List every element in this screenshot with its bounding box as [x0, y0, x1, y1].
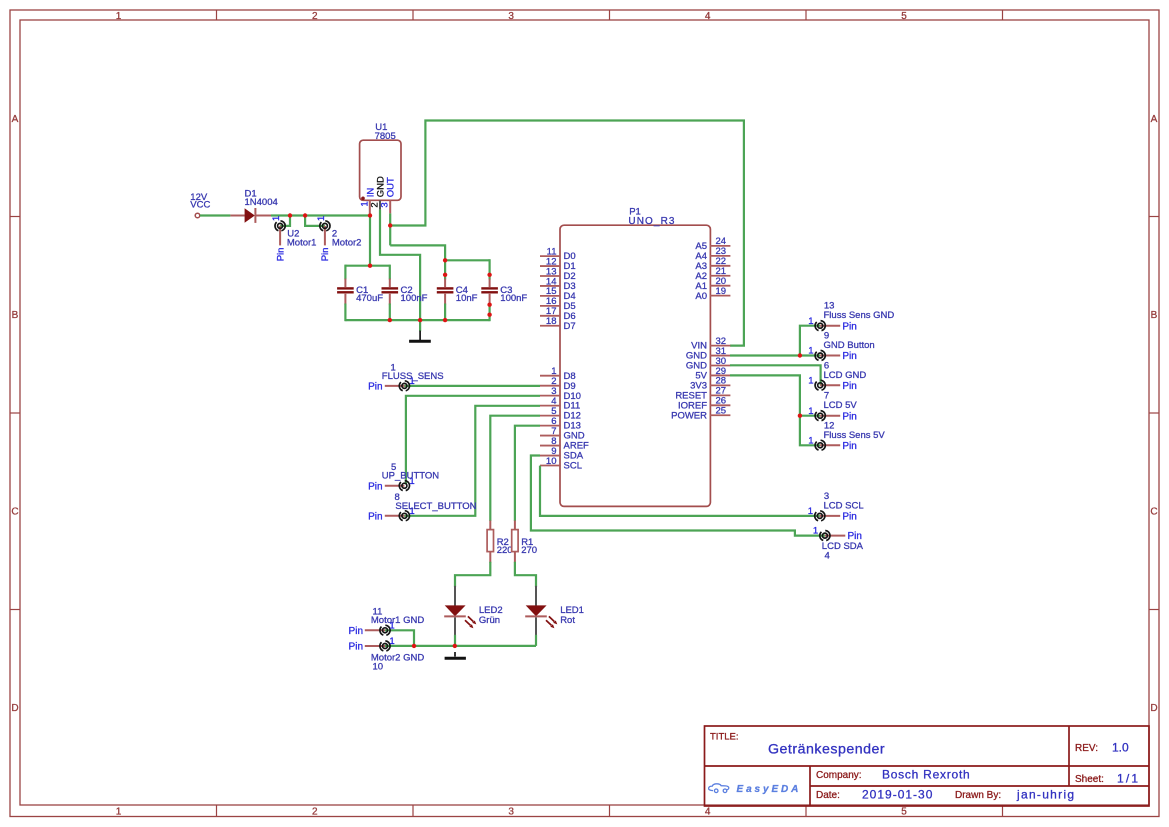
capacitor C3 100nF	[481, 279, 527, 305]
svg-text:3: 3	[508, 11, 514, 22]
pin connector SELECT_BUTTON	[385, 511, 410, 521]
pin connector U2 Motor1	[275, 221, 285, 246]
label number 3 of LCD SCL	[824, 491, 829, 502]
svg-text:470uF: 470uF	[356, 293, 383, 304]
svg-text:1: 1	[389, 636, 394, 647]
svg-text:1.0: 1.0	[1112, 741, 1129, 755]
svg-text:5: 5	[901, 11, 907, 22]
svg-text:1N4004: 1N4004	[245, 197, 278, 208]
wire GND30 to LCD GND	[730, 365, 821, 385]
svg-text:1: 1	[808, 346, 813, 357]
label number 9 of GND Button	[824, 331, 829, 342]
wire to Motor2 pin	[305, 216, 325, 226]
wire rail C1-C2	[345, 265, 389, 267]
svg-text:1: 1	[808, 375, 813, 386]
svg-text:Company:: Company:	[816, 770, 862, 781]
ground under LED2	[445, 652, 466, 658]
svg-text:POWER: POWER	[671, 410, 707, 421]
label Fluss Sens GND	[824, 310, 895, 321]
svg-text:1: 1	[116, 807, 122, 818]
svg-text:Pin: Pin	[842, 321, 856, 332]
svg-text:5: 5	[901, 807, 907, 818]
label 1N4004	[245, 197, 278, 208]
pin number 1 of LCD SDA	[813, 526, 818, 537]
capacitor C1 470uF	[337, 279, 383, 305]
P1 pins A5-A0	[695, 236, 730, 302]
pin number 1 of Motor2	[316, 216, 327, 221]
junction C3 lead b	[487, 313, 491, 317]
pin connector LCD GND	[815, 380, 840, 390]
label Motor2 GND	[371, 652, 424, 663]
svg-text:OUT: OUT	[386, 177, 397, 197]
label R1	[521, 537, 533, 548]
label Pin of FLUSS_SENS	[368, 382, 382, 393]
svg-text:LCD GND: LCD GND	[824, 370, 867, 381]
svg-text:SELECT_BUTTON: SELECT_BUTTON	[395, 501, 476, 512]
wire SCL to LCD SCL	[540, 466, 820, 516]
op-amp U1 7805 body	[360, 140, 401, 200]
svg-text:LCD SCL: LCD SCL	[824, 500, 864, 511]
pin connector Motor2 GND	[365, 641, 390, 651]
svg-text:Motor1: Motor1	[287, 238, 317, 249]
Sheet label	[1075, 774, 1104, 785]
wire ground rail	[345, 319, 489, 321]
junction C4 top pin	[443, 273, 447, 277]
label Pin of Motor2	[320, 248, 331, 262]
svg-text:C: C	[11, 507, 18, 518]
wire U1 OUT to P1 VIN	[390, 121, 744, 346]
Date label	[816, 790, 840, 801]
pin number 1 of UP_BUTTON	[409, 476, 414, 487]
wire C4 top	[444, 259, 446, 279]
wire SDA to LCD SDA	[531, 456, 825, 536]
junction LED2 rail	[453, 644, 457, 648]
label number 1 of FLUSS_SENS	[391, 362, 396, 373]
svg-text:Pin: Pin	[368, 481, 382, 492]
label number 8 of SELECT_BUTTON	[395, 492, 400, 503]
svg-text:Bosch Rexroth: Bosch Rexroth	[882, 768, 970, 782]
svg-text:4: 4	[705, 807, 711, 818]
junction 5V branch	[798, 414, 802, 418]
svg-text:5: 5	[391, 462, 396, 473]
pin connector GND Button	[815, 350, 840, 360]
wire U1 GND to ground rail	[380, 210, 420, 332]
svg-text:100nF: 100nF	[500, 293, 527, 304]
label 11	[373, 606, 383, 617]
wire C2 bottom	[389, 304, 391, 322]
svg-text:4: 4	[705, 11, 711, 22]
svg-text:1: 1	[316, 216, 327, 221]
svg-text:1: 1	[271, 216, 282, 221]
wire R2 to LED2	[455, 562, 490, 587]
svg-text:D: D	[1150, 703, 1157, 714]
junction rail gnd stub	[418, 318, 422, 322]
svg-text:100nF: 100nF	[401, 293, 428, 304]
svg-text:Pin: Pin	[842, 381, 856, 392]
label LCD SDA	[822, 541, 864, 552]
svg-text:1/1: 1/1	[1117, 772, 1140, 786]
label 2	[332, 229, 337, 240]
label Pin of SELECT_BUTTON	[368, 511, 382, 522]
svg-text:A0: A0	[695, 291, 707, 302]
label number 7 of LCD 5V	[824, 391, 829, 402]
svg-text:A: A	[12, 114, 19, 125]
LED LED2 Gruen	[444, 586, 502, 636]
capacitor C4 10nF	[437, 279, 478, 305]
svg-text:1: 1	[116, 11, 122, 22]
junction Motor1GND rail	[412, 644, 416, 648]
svg-text:2: 2	[312, 807, 318, 818]
label UNO_R3	[628, 216, 675, 227]
svg-text:Date:: Date:	[816, 790, 840, 801]
svg-text:12: 12	[824, 420, 835, 431]
pin connector LCD SDA	[820, 531, 845, 541]
wire LED2 to rail	[454, 635, 456, 646]
label LCD SCL	[824, 500, 864, 511]
label number 6 of LCD GND	[824, 360, 829, 371]
svg-text:10: 10	[373, 662, 384, 673]
wire OUT to C4 C3 rail	[390, 245, 445, 260]
label 270	[521, 545, 537, 556]
connector P1 UNO_R3 body	[560, 225, 710, 506]
svg-text:B: B	[1151, 310, 1158, 321]
wire R1 to LED1	[515, 562, 536, 587]
label 4 of LCD SDA	[825, 551, 830, 562]
svg-text:Motor2: Motor2	[332, 238, 362, 249]
pin number 1 of GND Button	[808, 346, 813, 357]
wire U1 IN down to cap rail	[369, 213, 371, 265]
svg-text:2: 2	[312, 11, 318, 22]
pin number 1 of FLUSS_SENS	[409, 376, 414, 387]
svg-text:8: 8	[395, 492, 400, 503]
label D1	[245, 189, 257, 200]
svg-text:Pin: Pin	[842, 512, 856, 523]
svg-text:jan-uhrig: jan-uhrig	[1016, 788, 1075, 802]
wire branch to Fluss Sens GND	[800, 326, 820, 356]
svg-text:19: 19	[716, 286, 727, 297]
wire SELECT_BUTTON to D11	[404, 406, 540, 516]
P1 pins D0-D7	[540, 246, 576, 331]
junction rail C4	[443, 258, 447, 262]
svg-text:Pin: Pin	[349, 626, 363, 637]
svg-text:9: 9	[824, 331, 829, 342]
pin name OUT	[386, 177, 397, 197]
svg-text:7: 7	[824, 391, 829, 402]
svg-text:LCD 5V: LCD 5V	[824, 400, 858, 411]
label Pin of Fluss Sens GND	[842, 321, 856, 332]
svg-text:Sheet:: Sheet:	[1075, 774, 1104, 785]
pin connector Motor2	[320, 221, 330, 246]
wire C4 bottom	[444, 304, 446, 322]
svg-text:Fluss Sens GND: Fluss Sens GND	[824, 310, 895, 321]
U1 pin2 lead GND	[379, 200, 381, 209]
pin number 1 of LCD GND	[808, 375, 813, 386]
wire C1 bottom	[344, 304, 346, 322]
svg-text:1: 1	[813, 526, 818, 537]
svg-text:3: 3	[380, 202, 391, 207]
label LCD 5V	[824, 400, 858, 411]
wire C2 top	[389, 265, 391, 280]
svg-text:GND Button: GND Button	[824, 340, 875, 351]
svg-text:220: 220	[497, 545, 513, 556]
Company value Bosch Rexroth	[882, 768, 970, 782]
label Pin of LCD SCL	[842, 512, 856, 523]
label SELECT_BUTTON	[395, 501, 476, 512]
svg-text:4: 4	[825, 551, 830, 562]
svg-text:A: A	[1151, 114, 1158, 125]
pin number 1 of U1	[359, 201, 370, 206]
label P1	[629, 207, 641, 218]
svg-text:SCL: SCL	[564, 461, 582, 472]
wire UP_BUTTON to D10	[406, 396, 540, 485]
pin number 1 of Motor1 GND	[389, 620, 394, 631]
pin number 2 of U1	[370, 202, 381, 207]
title block frame	[705, 726, 1150, 806]
label UP_BUTTON	[382, 471, 440, 482]
svg-text:Pin: Pin	[842, 351, 856, 362]
pin connector UP_BUTTON	[385, 481, 410, 491]
wire VCC to D1	[200, 214, 230, 216]
wire 5V to LCD 5V and Fluss Sens 5V	[730, 375, 820, 445]
junction at Motor2 tap	[303, 213, 307, 217]
pin connector Fluss Sens GND	[815, 321, 840, 331]
wire D13 to R1	[515, 426, 540, 521]
ground under capacitor bank	[409, 331, 431, 342]
title block TITLE label	[710, 732, 739, 743]
label Pin of LCD GND	[842, 381, 856, 392]
label GND Button	[824, 340, 875, 351]
label Pin of Motor2 GND	[349, 642, 363, 653]
wire C3 bottom	[489, 304, 491, 322]
svg-text:UNO_R3: UNO_R3	[628, 216, 675, 227]
junction C3 top pin	[487, 273, 491, 277]
wire LED1 to rail	[535, 635, 537, 646]
svg-text:Drawn By:: Drawn By:	[955, 790, 1001, 801]
label FLUSS_SENS	[382, 371, 444, 382]
svg-text:D: D	[11, 703, 18, 714]
pin connector FLUSS_SENS	[385, 381, 410, 391]
LED LED1 Rot	[525, 586, 584, 636]
svg-text:VCC: VCC	[190, 200, 210, 211]
label LCD GND	[824, 370, 867, 381]
svg-text:270: 270	[521, 545, 537, 556]
pin connector Motor1 GND	[365, 625, 390, 635]
label 220	[497, 545, 513, 556]
wire rail C4-C3	[445, 259, 490, 261]
svg-text:10: 10	[546, 456, 557, 467]
Drawn By value jan-uhrig	[1016, 788, 1075, 802]
label R2	[497, 537, 509, 548]
svg-text:Fluss Sens 5V: Fluss Sens 5V	[824, 430, 886, 441]
svg-text:Rot: Rot	[560, 615, 575, 626]
junction at Motor1 tap	[288, 213, 292, 217]
wire branch LCD 5V	[800, 415, 820, 417]
junction GND branch	[798, 353, 802, 357]
U1 pin3 lead OUT	[389, 200, 391, 213]
junction rail at U1 IN	[368, 264, 372, 268]
label Pin of LCD SDA	[848, 531, 862, 542]
label 10	[373, 662, 384, 673]
svg-text:2019-01-30: 2019-01-30	[862, 788, 933, 802]
svg-text:TITLE:: TITLE:	[710, 732, 739, 743]
label Pin of Motor1	[275, 248, 286, 262]
P1 pins VIN-POWER	[671, 336, 730, 421]
svg-text:Pin: Pin	[368, 382, 382, 393]
svg-text:Grün: Grün	[479, 615, 500, 626]
label Pin of LCD 5V	[842, 411, 856, 422]
pin connector LCD 5V	[815, 411, 840, 421]
label Motor2	[332, 238, 362, 249]
wire GND31 to GND Button	[730, 354, 820, 356]
svg-text:25: 25	[716, 406, 727, 417]
node 12V VCC label	[190, 192, 210, 211]
terminal 12V VCC	[195, 213, 200, 218]
pin name GND	[376, 176, 387, 197]
svg-text:1: 1	[808, 406, 813, 417]
P1 pins D8-SCL	[540, 366, 589, 472]
svg-text:6: 6	[824, 360, 829, 371]
label 7805	[375, 131, 396, 142]
svg-text:7805: 7805	[375, 131, 396, 142]
junction U1 OUT	[388, 223, 392, 227]
svg-text:REV:: REV:	[1075, 743, 1098, 754]
pin number 1 of Fluss Sens 5V	[808, 435, 813, 446]
resistor R2 220	[487, 521, 493, 563]
wire U1 OUT down	[389, 213, 391, 245]
capacitor C2 100nF	[382, 279, 428, 305]
wire C3 top	[489, 259, 491, 279]
resistor R1 270	[512, 521, 518, 563]
Sheet value 1/1	[1117, 772, 1140, 786]
svg-text:10nF: 10nF	[456, 293, 478, 304]
svg-text:18: 18	[546, 316, 557, 327]
svg-text:Motor1 GND: Motor1 GND	[371, 615, 424, 626]
junction rail C2	[388, 318, 392, 322]
svg-text:Pin: Pin	[368, 511, 382, 522]
svg-text:Pin: Pin	[842, 441, 856, 452]
wire to Motor1 pin	[280, 216, 290, 226]
svg-text:Pin: Pin	[349, 642, 363, 653]
svg-text:3: 3	[824, 491, 829, 502]
pin connector Fluss Sens 5V	[815, 440, 840, 450]
svg-text:Getränkespender: Getränkespender	[768, 742, 885, 758]
pin number 1 of LCD SCL	[808, 506, 813, 517]
label Pin of UP_BUTTON	[368, 481, 382, 492]
svg-text:Pin: Pin	[275, 248, 286, 262]
Drawn By label	[955, 790, 1001, 801]
svg-text:13: 13	[824, 301, 835, 312]
svg-text:Pin: Pin	[842, 411, 856, 422]
label Pin of Motor1 GND	[349, 626, 363, 637]
pin name IN	[366, 188, 377, 198]
label number 12 of Fluss Sens 5V	[824, 420, 835, 431]
U1 pin1 dot	[361, 197, 365, 201]
label Pin of Fluss Sens 5V	[842, 441, 856, 452]
label U2	[287, 229, 299, 240]
label Fluss Sens 5V	[824, 430, 886, 441]
Date value 2019-01-30	[862, 788, 933, 802]
svg-text:EasyEDA: EasyEDA	[737, 784, 802, 795]
pin number 3 of U1	[380, 202, 391, 207]
diode D1 1N4004	[230, 208, 271, 223]
title Getränkespender	[768, 742, 885, 758]
wire D1 to U1 IN	[271, 214, 370, 216]
EasyEDA logo	[709, 784, 802, 795]
pin number 1 of Motor2 GND	[389, 636, 394, 647]
wire LED ground rail	[385, 645, 536, 647]
pin number 1 of SELECT_BUTTON	[409, 506, 414, 517]
svg-text:1: 1	[808, 316, 813, 327]
junction rail C4	[443, 318, 447, 322]
label Motor1	[287, 238, 317, 249]
pin number 1 of Motor1	[271, 216, 282, 221]
svg-text:Pin: Pin	[320, 248, 331, 262]
svg-text:1: 1	[808, 506, 813, 517]
svg-text:D7: D7	[564, 321, 576, 332]
label number 13 of Fluss Sens GND	[824, 301, 835, 312]
Company label	[816, 770, 862, 781]
svg-text:1: 1	[808, 435, 813, 446]
pin connector LCD SCL	[815, 511, 840, 521]
svg-text:B: B	[12, 310, 19, 321]
svg-text:1: 1	[391, 362, 396, 373]
pin number 1 of LCD 5V	[808, 406, 813, 417]
REV value 1.0	[1112, 741, 1129, 755]
svg-text:C: C	[1150, 507, 1157, 518]
wire Motor1 GND pin to rail	[385, 630, 414, 646]
junction C3 lead a	[487, 303, 491, 307]
label Pin of GND Button	[842, 351, 856, 362]
wire D12 to R2	[490, 416, 540, 521]
label Motor1 GND	[371, 615, 424, 626]
REV label	[1075, 743, 1098, 754]
label U1	[375, 122, 387, 133]
label number 5 of UP_BUTTON	[391, 462, 396, 473]
wire FLUSS_SENS to D9	[404, 385, 540, 387]
wire C1 top	[344, 265, 346, 280]
junction U1 IN	[368, 213, 372, 217]
pin number 1 of Fluss Sens GND	[808, 316, 813, 327]
U1 pin1 lead IN	[369, 200, 371, 213]
svg-text:3: 3	[508, 807, 514, 818]
